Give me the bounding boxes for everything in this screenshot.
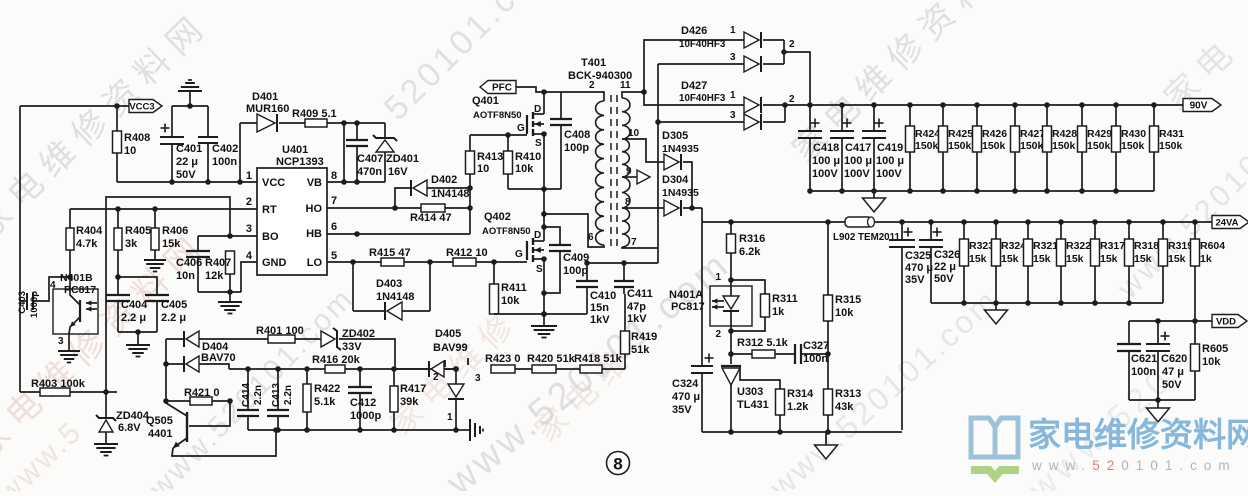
svg-text:39k: 39k	[400, 396, 419, 408]
svg-text:R314: R314	[787, 388, 814, 400]
svg-text:10: 10	[124, 145, 136, 157]
svg-text:G: G	[515, 249, 523, 260]
svg-text:VCC3: VCC3	[129, 102, 154, 113]
svg-text:R430: R430	[1121, 128, 1146, 140]
svg-text:C621: C621	[1131, 353, 1157, 365]
svg-text:PC817: PC817	[64, 284, 96, 296]
svg-text:D427: D427	[681, 80, 707, 92]
svg-text:10F40HF3: 10F40HF3	[679, 39, 726, 50]
svg-text:R323: R323	[969, 240, 994, 252]
svg-text:100 μ: 100 μ	[844, 155, 872, 167]
svg-text:C402: C402	[212, 143, 238, 155]
svg-text:33V: 33V	[342, 341, 362, 353]
svg-text:1: 1	[715, 272, 721, 283]
svg-text:D402: D402	[431, 174, 457, 186]
svg-text:1N4148: 1N4148	[431, 188, 470, 200]
svg-text:4: 4	[246, 250, 253, 262]
svg-text:50V: 50V	[176, 169, 196, 181]
svg-text:R405: R405	[125, 225, 151, 237]
svg-text:R413: R413	[477, 151, 503, 163]
svg-text:10k: 10k	[1202, 356, 1221, 368]
svg-text:C405: C405	[161, 299, 187, 311]
svg-text:1N4935: 1N4935	[662, 143, 699, 155]
svg-text:150k: 150k	[1020, 140, 1044, 152]
svg-text:2.2n: 2.2n	[253, 385, 264, 405]
svg-text:35V: 35V	[672, 404, 692, 416]
svg-text:150k: 150k	[1121, 140, 1145, 152]
svg-text:15k: 15k	[162, 238, 181, 250]
svg-text:6.8V: 6.8V	[118, 422, 141, 434]
svg-text:R311: R311	[772, 293, 798, 305]
svg-text:R426: R426	[982, 128, 1007, 140]
svg-text:16V: 16V	[388, 166, 408, 178]
svg-text:C327: C327	[803, 340, 829, 352]
svg-text:R408: R408	[124, 132, 150, 144]
svg-text:R411: R411	[501, 282, 527, 294]
svg-text:HB: HB	[306, 228, 322, 240]
svg-text:15k: 15k	[1100, 253, 1118, 265]
svg-text:2.2 μ: 2.2 μ	[161, 312, 186, 324]
svg-text:C413: C413	[271, 383, 282, 407]
svg-text:N401B: N401B	[60, 272, 93, 284]
svg-text:R412 10: R412 10	[446, 247, 488, 259]
svg-text:AOTF8N50: AOTF8N50	[473, 110, 522, 121]
svg-text:R422: R422	[314, 383, 340, 395]
svg-text:100n: 100n	[1131, 366, 1156, 378]
svg-text:D403: D403	[376, 278, 402, 290]
svg-text:3: 3	[246, 223, 252, 235]
svg-text:NCP1393: NCP1393	[276, 156, 324, 168]
svg-text:C419: C419	[877, 142, 903, 154]
svg-text:100p: 100p	[564, 142, 589, 154]
svg-text:HO: HO	[306, 203, 323, 215]
svg-text:BAV99: BAV99	[433, 342, 468, 354]
svg-text:C620: C620	[1161, 353, 1187, 365]
svg-text:4: 4	[50, 280, 56, 291]
svg-text:C326: C326	[934, 249, 960, 261]
svg-text:8: 8	[331, 170, 337, 182]
svg-text:3: 3	[475, 373, 481, 384]
svg-text:R318: R318	[1134, 240, 1159, 252]
svg-text:100n: 100n	[212, 156, 237, 168]
svg-text:3: 3	[730, 52, 736, 63]
svg-text:R431: R431	[1159, 128, 1184, 140]
svg-text:R420 51k: R420 51k	[527, 353, 576, 365]
svg-text:Q505: Q505	[146, 415, 173, 427]
svg-text:1N4935: 1N4935	[662, 187, 699, 199]
svg-text:C401: C401	[176, 143, 202, 155]
svg-text:6: 6	[588, 232, 594, 243]
svg-text:2.2n: 2.2n	[283, 385, 294, 405]
svg-text:C325: C325	[905, 250, 931, 262]
svg-text:C414: C414	[241, 383, 252, 407]
svg-text:Q402: Q402	[484, 211, 511, 223]
svg-text:22 μ: 22 μ	[934, 261, 956, 273]
svg-text:6: 6	[331, 221, 337, 233]
svg-text:1N4148: 1N4148	[376, 291, 415, 303]
svg-text:R407: R407	[205, 257, 231, 269]
svg-text:U401: U401	[282, 144, 308, 156]
svg-text:U303: U303	[737, 386, 763, 398]
svg-text:100V: 100V	[812, 168, 838, 180]
svg-text:2: 2	[433, 372, 439, 383]
svg-text:R312 5.1k: R312 5.1k	[737, 337, 789, 349]
svg-text:100V: 100V	[844, 168, 870, 180]
svg-text:470n: 470n	[357, 166, 382, 178]
svg-text:50V: 50V	[1162, 379, 1182, 391]
svg-text:C408: C408	[564, 129, 590, 141]
svg-text:35V: 35V	[905, 274, 925, 286]
svg-text:R324: R324	[1001, 240, 1026, 252]
svg-text:51k: 51k	[631, 344, 650, 356]
svg-text:家电维修资料网: 家电维修资料网	[1028, 416, 1248, 453]
svg-text:Q401: Q401	[472, 95, 499, 107]
svg-text:ZD404: ZD404	[116, 410, 150, 422]
svg-text:N401A: N401A	[669, 289, 703, 301]
svg-text:1k: 1k	[772, 306, 785, 318]
svg-text:RT: RT	[262, 204, 277, 216]
svg-text:3: 3	[730, 110, 736, 121]
svg-text:150k: 150k	[1052, 140, 1076, 152]
svg-text:MUR160: MUR160	[246, 103, 289, 115]
svg-text:15k: 15k	[969, 253, 987, 265]
svg-text:R403 100k: R403 100k	[31, 378, 86, 390]
svg-text:ZD401: ZD401	[386, 153, 419, 165]
svg-text:C410: C410	[590, 290, 616, 302]
svg-text:1kV: 1kV	[590, 314, 610, 326]
svg-text:1kV: 1kV	[627, 313, 647, 325]
svg-text:R423 0: R423 0	[485, 353, 520, 365]
svg-text:50V: 50V	[934, 273, 954, 285]
svg-text:1000p: 1000p	[29, 291, 40, 318]
svg-text:1000p: 1000p	[350, 410, 381, 422]
svg-text:R604: R604	[1200, 240, 1225, 252]
svg-text:15k: 15k	[1066, 253, 1084, 265]
svg-text:VCC: VCC	[262, 177, 285, 189]
svg-text:R425: R425	[948, 128, 973, 140]
svg-text:470 μ: 470 μ	[672, 391, 700, 403]
svg-text:C403: C403	[17, 291, 28, 314]
svg-text:11: 11	[620, 80, 631, 91]
svg-text:D405: D405	[435, 328, 461, 340]
svg-text:24VA: 24VA	[1215, 218, 1238, 229]
svg-text:R410: R410	[515, 151, 541, 163]
svg-text:5.1k: 5.1k	[314, 396, 336, 408]
svg-text:15k: 15k	[1168, 253, 1186, 265]
svg-text:R416 20k: R416 20k	[312, 354, 361, 366]
svg-text:2.2 μ: 2.2 μ	[121, 312, 146, 324]
svg-text:5: 5	[331, 250, 337, 262]
svg-text:C417: C417	[845, 142, 871, 154]
svg-text:10k: 10k	[515, 163, 534, 175]
svg-text:R315: R315	[835, 294, 861, 306]
svg-text:R319: R319	[1168, 240, 1193, 252]
svg-text:90V: 90V	[1190, 101, 1208, 112]
svg-text:R424: R424	[915, 128, 940, 140]
svg-text:1: 1	[730, 25, 736, 36]
svg-text:R605: R605	[1202, 343, 1228, 355]
svg-text:R428: R428	[1052, 128, 1077, 140]
svg-text:47 μ: 47 μ	[1162, 366, 1184, 378]
svg-text:C418: C418	[813, 142, 839, 154]
svg-text:150k: 150k	[948, 140, 972, 152]
svg-text:C406: C406	[176, 257, 202, 269]
svg-text:15k: 15k	[1033, 253, 1051, 265]
svg-text:R313: R313	[835, 388, 861, 400]
svg-text:100 μ: 100 μ	[812, 155, 840, 167]
svg-text:10k: 10k	[835, 307, 854, 319]
svg-text:150k: 150k	[915, 140, 939, 152]
svg-text:G: G	[517, 123, 525, 134]
svg-text:12k: 12k	[205, 270, 224, 282]
svg-text:2: 2	[789, 94, 795, 105]
svg-text:BO: BO	[262, 231, 279, 243]
svg-text:100n: 100n	[803, 353, 828, 365]
svg-text:150k: 150k	[982, 140, 1006, 152]
svg-text:10F40HF3: 10F40HF3	[679, 93, 726, 104]
svg-text:R316: R316	[739, 233, 765, 245]
svg-text:VB: VB	[307, 177, 322, 189]
svg-text:PFC: PFC	[492, 83, 512, 94]
svg-text:PC817: PC817	[671, 301, 705, 313]
svg-text:GND: GND	[262, 257, 287, 269]
svg-text:1: 1	[730, 90, 736, 101]
svg-text:R418 51k: R418 51k	[574, 353, 623, 365]
svg-text:D426: D426	[681, 25, 707, 37]
svg-text:43k: 43k	[835, 401, 854, 413]
svg-text:10n: 10n	[176, 270, 195, 282]
svg-text:2: 2	[246, 196, 252, 208]
svg-text:7: 7	[331, 195, 337, 207]
svg-text:R414 47: R414 47	[410, 212, 452, 224]
svg-text:D: D	[534, 230, 541, 241]
svg-text:C407: C407	[357, 153, 383, 165]
svg-text:2: 2	[789, 39, 795, 50]
svg-text:1.2k: 1.2k	[787, 401, 809, 413]
svg-text:100p: 100p	[563, 265, 588, 277]
svg-text:T401: T401	[581, 57, 606, 69]
svg-text:15n: 15n	[590, 302, 609, 314]
svg-text:100V: 100V	[876, 168, 902, 180]
svg-text:D401: D401	[252, 91, 278, 103]
svg-text:3k: 3k	[125, 238, 138, 250]
svg-text:TL431: TL431	[737, 399, 769, 411]
svg-text:470 μ: 470 μ	[905, 262, 933, 274]
svg-text:1: 1	[447, 412, 453, 423]
svg-text:C324: C324	[672, 378, 699, 390]
svg-text:R429: R429	[1087, 128, 1112, 140]
svg-text:15k: 15k	[1134, 253, 1152, 265]
svg-text:C412: C412	[350, 397, 376, 409]
svg-text:R421 0: R421 0	[184, 387, 219, 399]
svg-text:S: S	[536, 264, 543, 275]
svg-text:1: 1	[246, 170, 252, 182]
svg-text:R321: R321	[1033, 240, 1058, 252]
svg-text:R427: R427	[1020, 128, 1045, 140]
svg-text:C404: C404	[121, 299, 148, 311]
svg-text:8: 8	[613, 455, 622, 474]
svg-text:VDD: VDD	[1216, 317, 1236, 328]
svg-text:L902 TEM2011: L902 TEM2011	[833, 232, 901, 243]
svg-text:10: 10	[477, 163, 489, 175]
svg-text:R401 100: R401 100	[256, 325, 304, 337]
svg-text:S: S	[535, 138, 542, 149]
svg-text:4401: 4401	[148, 428, 172, 440]
svg-text:AOTF8N50: AOTF8N50	[482, 226, 531, 237]
svg-text:3: 3	[58, 336, 64, 347]
svg-text:7: 7	[631, 237, 637, 248]
svg-text:R406: R406	[162, 225, 188, 237]
svg-text:R419: R419	[631, 331, 657, 343]
svg-text:100 μ: 100 μ	[876, 155, 904, 167]
svg-text:2: 2	[589, 80, 595, 91]
svg-text:R415 47: R415 47	[369, 247, 411, 259]
svg-text:150k: 150k	[1087, 140, 1111, 152]
svg-text:22 μ: 22 μ	[176, 156, 198, 168]
svg-text:2: 2	[715, 329, 721, 340]
svg-text:R317: R317	[1100, 240, 1125, 252]
svg-text:D305: D305	[662, 130, 688, 142]
svg-text:LO: LO	[307, 257, 323, 269]
svg-text:R404: R404	[76, 225, 103, 237]
svg-text:BAV70: BAV70	[201, 352, 236, 364]
svg-text:15k: 15k	[1001, 253, 1019, 265]
svg-text:6.2k: 6.2k	[739, 246, 761, 258]
svg-text:47p: 47p	[627, 301, 646, 313]
svg-text:1k: 1k	[1200, 253, 1212, 265]
svg-text:150k: 150k	[1159, 140, 1183, 152]
svg-text:R409 5.1: R409 5.1	[292, 108, 337, 120]
svg-text:R322: R322	[1066, 240, 1091, 252]
svg-text:4.7k: 4.7k	[76, 238, 98, 250]
svg-text:www.520101.com: www.520101.com	[1031, 458, 1237, 473]
svg-text:R417: R417	[400, 383, 426, 395]
svg-text:C411: C411	[627, 288, 653, 300]
svg-text:10k: 10k	[501, 295, 520, 307]
svg-text:D304: D304	[662, 174, 689, 186]
